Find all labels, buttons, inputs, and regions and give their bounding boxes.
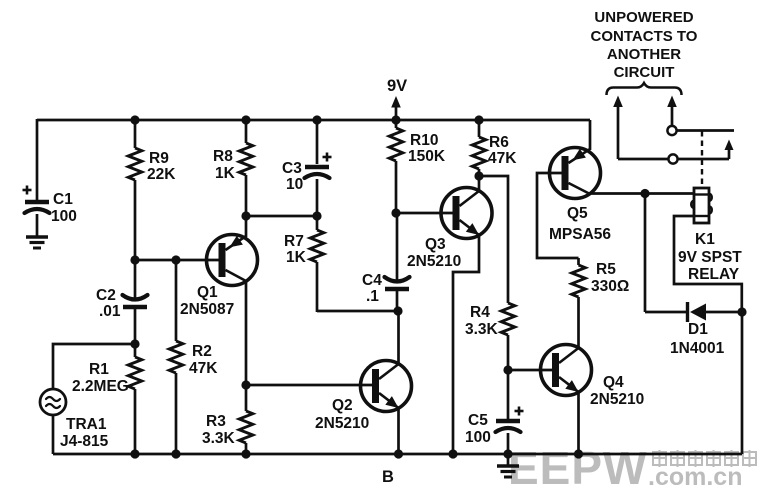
resistor R9 xyxy=(128,148,142,180)
transistor Q4 xyxy=(541,345,592,396)
ground main xyxy=(497,466,519,477)
svg-text:RELAY: RELAY xyxy=(688,266,740,283)
wire K1 return lead xyxy=(674,216,742,312)
wire R2 to ground rail xyxy=(175,373,178,454)
svg-text:D1: D1 xyxy=(688,321,708,338)
label unpowered contacts xyxy=(591,9,698,81)
wire node to C3 xyxy=(246,215,317,218)
label R9 22K xyxy=(147,150,176,183)
wire R10 top stub xyxy=(395,120,398,128)
transistor Q5 xyxy=(550,148,601,199)
svg-text:K1: K1 xyxy=(695,231,715,248)
label Q5 MPSA56 xyxy=(549,205,611,243)
junction top rail R8 xyxy=(241,115,250,124)
wire R4 to Q4 base node xyxy=(507,335,510,370)
svg-text:.com.cn: .com.cn xyxy=(648,463,742,491)
svg-text:CIRCUIT: CIRCUIT xyxy=(614,64,675,81)
wire R6 top stub xyxy=(478,120,481,137)
capacitor C2 xyxy=(123,295,148,307)
capacitor C3 xyxy=(305,153,332,179)
svg-text:47K: 47K xyxy=(488,150,517,167)
label R2 47K xyxy=(189,343,218,377)
svg-text:100: 100 xyxy=(51,208,77,225)
svg-text:R6: R6 xyxy=(489,134,509,151)
svg-text:R7: R7 xyxy=(284,233,304,250)
capacitor C4 xyxy=(385,277,410,289)
wire C5 top stub xyxy=(507,370,510,419)
label K1 9V SPST RELAY xyxy=(678,231,742,283)
svg-text:9V SPST: 9V SPST xyxy=(678,249,742,266)
label R6 47K xyxy=(488,134,517,167)
svg-text:Q3: Q3 xyxy=(425,236,446,253)
label R3 3.3K xyxy=(202,413,236,447)
svg-text:Q1: Q1 xyxy=(197,284,218,301)
svg-text:3.3K: 3.3K xyxy=(202,430,236,447)
capacitor C1 xyxy=(23,119,50,237)
junction relay drive node xyxy=(640,189,649,198)
wire Q2 base xyxy=(246,384,372,387)
svg-text:100: 100 xyxy=(465,429,491,446)
svg-text:Q4: Q4 xyxy=(603,374,624,391)
svg-text:150K: 150K xyxy=(408,148,446,165)
transistor Q3 xyxy=(441,188,492,239)
wire TRA1 bottom lead xyxy=(52,415,55,454)
junction R1 top / TRA1 xyxy=(130,339,139,348)
wire Q4 collector xyxy=(577,297,580,348)
svg-text:3.3K: 3.3K xyxy=(465,321,499,338)
wire top 9V rail xyxy=(37,119,590,122)
junction base wire R2 xyxy=(171,255,180,264)
resistor R6 xyxy=(472,137,486,169)
wire R9 column top xyxy=(134,120,137,148)
svg-text:330Ω: 330Ω xyxy=(591,278,629,295)
wire C4 bottom stub xyxy=(396,291,399,311)
label 9V supply xyxy=(387,77,407,95)
wire diode right lead xyxy=(706,311,742,314)
svg-text:47K: 47K xyxy=(189,360,218,377)
svg-text:C4: C4 xyxy=(362,272,382,289)
junction Q1 collector R3 Q2 base xyxy=(241,380,250,389)
label Q1 2N5087 xyxy=(180,284,234,318)
svg-text:1K: 1K xyxy=(215,165,236,182)
wire R1 to ground rail xyxy=(134,389,137,454)
junction D1 K1 return xyxy=(737,307,746,316)
svg-text:2N5210: 2N5210 xyxy=(590,391,644,408)
svg-text:1K: 1K xyxy=(286,249,307,266)
label C5 100 xyxy=(465,412,491,446)
junction Q4 emitter ground rail xyxy=(574,449,583,458)
wire R7 down xyxy=(316,262,319,312)
svg-text:J4-815: J4-815 xyxy=(60,433,109,450)
label Q2 2N5210 xyxy=(315,397,369,432)
junction C5 ground rail xyxy=(503,449,512,458)
arrow 9V xyxy=(391,96,401,120)
wire ground stub xyxy=(507,454,510,466)
svg-text:UNPOWERED: UNPOWERED xyxy=(594,9,693,26)
wire C2 to R1 node xyxy=(134,309,137,344)
brace contacts xyxy=(607,83,682,95)
junction Q3 emitter ground rail xyxy=(448,449,457,458)
transistor Q2 xyxy=(361,361,412,412)
label node B xyxy=(382,468,394,486)
junction rail R1 xyxy=(130,449,139,458)
svg-text:C2: C2 xyxy=(96,287,116,304)
junction top rail R9 xyxy=(130,115,139,124)
svg-text:2.2MEG: 2.2MEG xyxy=(72,378,129,395)
wire R6 to R4 link xyxy=(479,176,508,303)
label C2 .01 xyxy=(96,287,121,320)
wire relay node down xyxy=(644,194,647,313)
resistor R5 xyxy=(572,265,586,297)
resistor R7 xyxy=(310,230,324,262)
resistor R1 xyxy=(128,357,142,389)
svg-text:B: B xyxy=(382,468,394,486)
svg-text:R3: R3 xyxy=(206,413,226,430)
svg-text:R10: R10 xyxy=(410,132,438,149)
wire Q4 emitter xyxy=(577,392,580,454)
wire Q5 emitter xyxy=(589,120,592,150)
svg-text:C3: C3 xyxy=(282,160,302,177)
transducer TRA1 xyxy=(40,389,66,415)
junction R6 Q3 collector xyxy=(474,171,483,180)
junction R8 C3 node xyxy=(241,211,250,220)
svg-text:C5: C5 xyxy=(468,412,488,429)
label R1 2.2MEG xyxy=(72,361,129,395)
svg-text:2N5087: 2N5087 xyxy=(180,301,234,318)
resistor R4 xyxy=(501,303,515,335)
wire Q3 base xyxy=(396,212,453,215)
label C4 .1 xyxy=(362,272,382,305)
junction C4 Q2 collector node xyxy=(393,306,402,315)
wire Q5 base path xyxy=(537,173,579,258)
wire lower contact lead xyxy=(618,158,729,161)
contact upper xyxy=(667,126,676,135)
label TRA1 J4-815 xyxy=(60,416,109,450)
label C3 10 xyxy=(282,160,303,193)
resistor R3 xyxy=(239,411,253,443)
wire diode left lead xyxy=(645,311,686,314)
wire Q1 collector xyxy=(245,281,248,385)
label R4 3.3K xyxy=(465,304,499,338)
label Q3 2N5210 xyxy=(407,236,461,270)
wire C4 column xyxy=(396,213,399,281)
junction Q3 base node xyxy=(391,208,400,217)
junction top rail C3 xyxy=(312,115,321,124)
wire R9 to base node xyxy=(134,180,137,260)
wire upper contact lead xyxy=(677,129,734,132)
wire Q5 collector to relay xyxy=(590,192,694,195)
wire R7 top stub xyxy=(316,216,319,230)
svg-text:C1: C1 xyxy=(53,191,73,208)
svg-text:Q5: Q5 xyxy=(567,205,588,222)
svg-text:R1: R1 xyxy=(89,361,109,378)
wire contact arrow small xyxy=(725,140,734,160)
transistor Q1 xyxy=(207,235,258,286)
svg-text:2N5210: 2N5210 xyxy=(315,415,369,432)
svg-text:R8: R8 xyxy=(213,148,233,165)
svg-text:.01: .01 xyxy=(99,303,121,320)
wire Q3 collector xyxy=(478,176,481,191)
wire Q2 emitter xyxy=(397,408,400,454)
wire relay dashed link xyxy=(701,131,703,187)
wire R8 column top xyxy=(245,120,248,143)
wire TRA1 top lead xyxy=(53,344,135,390)
wire Q1 base xyxy=(135,259,219,262)
diode D1 xyxy=(688,302,707,322)
junction Q1 base / C2 top xyxy=(130,255,139,264)
wire bottom ground rail xyxy=(53,453,742,456)
label Q4 2N5210 xyxy=(590,374,644,408)
svg-text:.1: .1 xyxy=(366,288,379,305)
wire R8 to node xyxy=(245,175,248,216)
wire C3 to node xyxy=(316,179,319,216)
junction top rail R6 xyxy=(474,115,483,124)
wire Q3 emitter path xyxy=(453,235,479,454)
wire Q1 emitter xyxy=(245,216,248,237)
svg-text:1N4001: 1N4001 xyxy=(670,340,725,357)
junction rail R3 xyxy=(241,449,250,458)
watermark EEPW xyxy=(508,442,756,494)
svg-text:10: 10 xyxy=(286,176,303,193)
label C1 100 xyxy=(51,191,77,225)
svg-text:CONTACTS TO: CONTACTS TO xyxy=(591,28,698,45)
svg-text:9V: 9V xyxy=(387,77,407,95)
junction C3 R7 node xyxy=(312,211,321,220)
svg-text:ANOTHER: ANOTHER xyxy=(607,46,681,63)
junction top rail 9V xyxy=(391,115,400,124)
wire C5 bottom stub xyxy=(507,433,510,454)
ground below C1 xyxy=(26,237,48,248)
wire C2 top stub xyxy=(134,260,137,299)
svg-text:R9: R9 xyxy=(149,150,169,167)
svg-text:MPSA56: MPSA56 xyxy=(549,226,611,243)
contact lower xyxy=(668,154,677,163)
wire contact arrow mid xyxy=(667,96,677,127)
resistor R2 xyxy=(169,341,183,373)
label D1 1N4001 xyxy=(670,321,725,357)
svg-text:R5: R5 xyxy=(596,261,616,278)
wire Q2 collector xyxy=(397,311,400,364)
junction rail Q2 emitter xyxy=(394,449,403,458)
wire R3 to ground rail xyxy=(245,443,248,454)
svg-text:22K: 22K xyxy=(147,166,176,183)
label R5 330 xyxy=(591,261,629,295)
label R8 1K xyxy=(213,148,236,182)
wire contact arrow left xyxy=(613,96,623,160)
svg-text:Q2: Q2 xyxy=(332,397,353,414)
capacitor C5 xyxy=(496,407,524,433)
wire R1 top stub xyxy=(134,344,137,357)
label R7 1K xyxy=(284,233,307,266)
wire R3 top stub xyxy=(245,385,248,411)
wire right edge down xyxy=(741,312,744,454)
svg-text:2N5210: 2N5210 xyxy=(407,253,461,270)
relay coil K1 xyxy=(691,188,712,223)
wire R7 to C4 node xyxy=(317,310,397,313)
resistor R8 xyxy=(239,143,253,175)
wire R2 column xyxy=(175,260,178,341)
wire R10 to Q3 base node xyxy=(395,161,398,213)
junction rail R2 xyxy=(171,449,180,458)
label R10 150K xyxy=(408,132,446,165)
resistor R10 xyxy=(389,128,403,161)
wire R6 to node xyxy=(478,169,481,176)
svg-text:R4: R4 xyxy=(470,304,490,321)
junction R4 C5 Q4 base xyxy=(503,365,512,374)
wire R5 top stub xyxy=(577,258,580,265)
wire Q4 base xyxy=(508,369,552,372)
svg-text:R2: R2 xyxy=(192,343,212,360)
svg-text:TRA1: TRA1 xyxy=(66,416,107,433)
wire C3 top stub xyxy=(316,120,319,164)
